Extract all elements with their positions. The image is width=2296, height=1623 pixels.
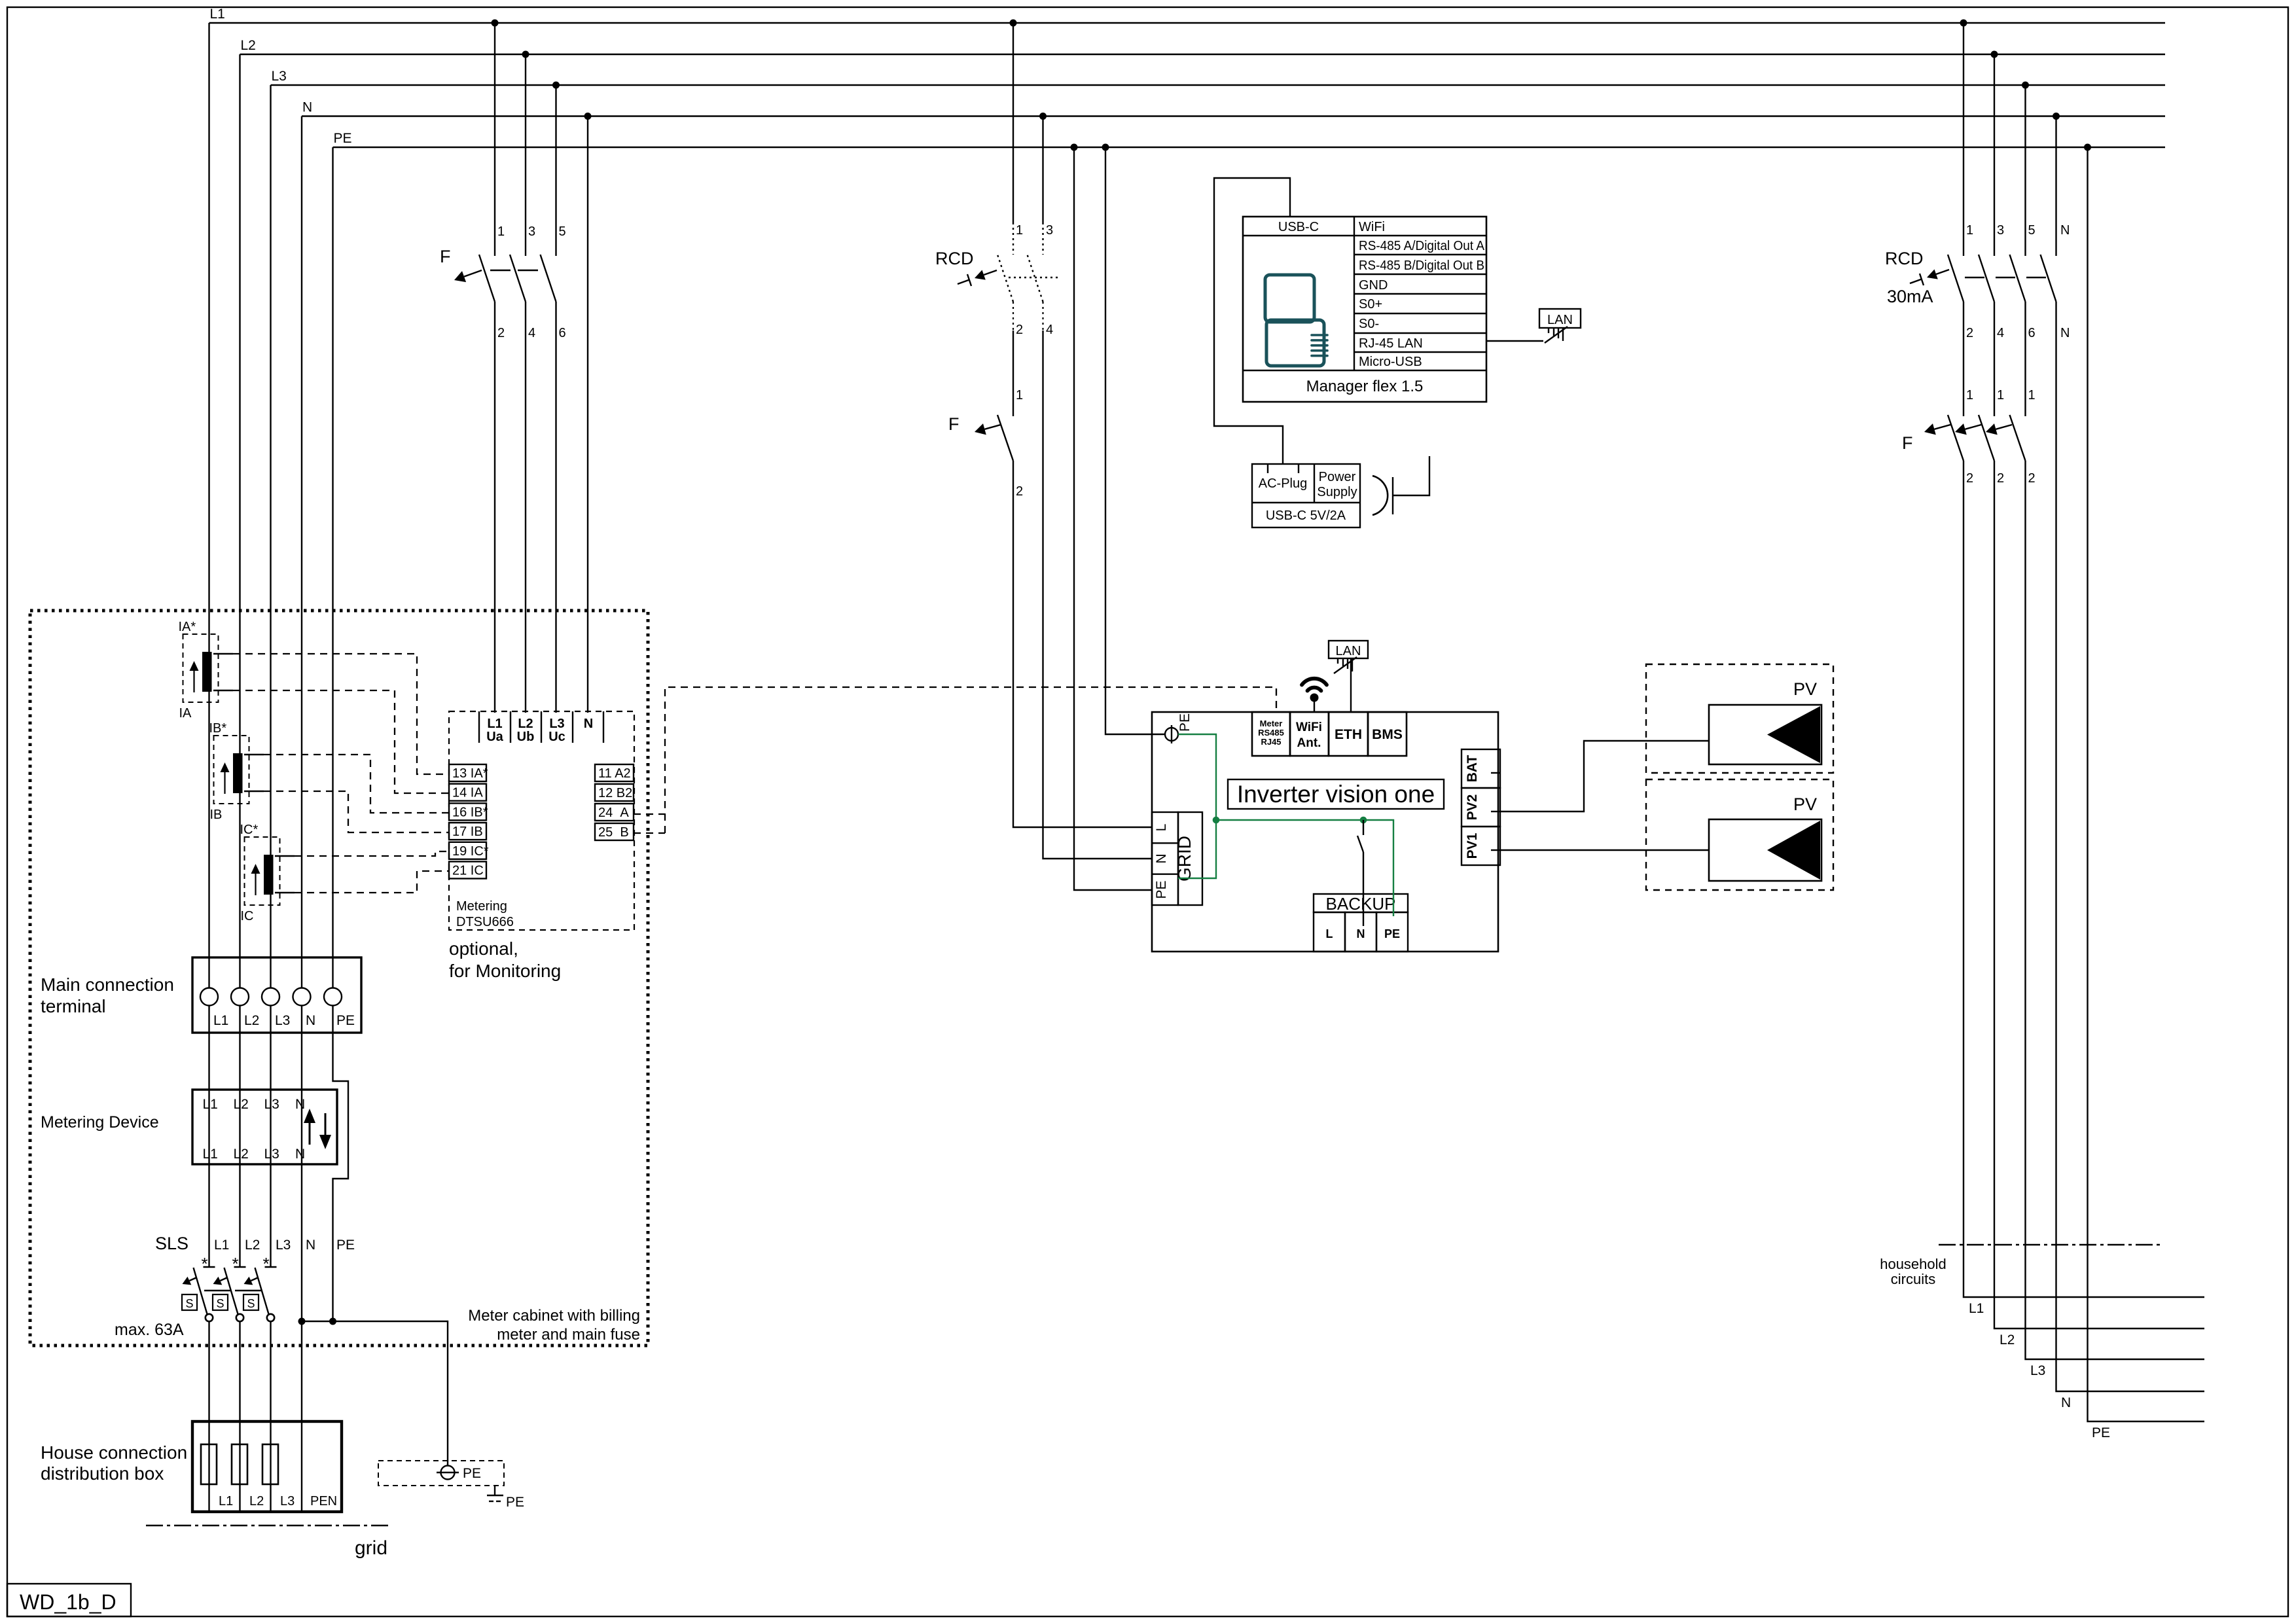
svg-text:L2: L2 xyxy=(234,1147,249,1162)
fuse element L1 in distribution box xyxy=(201,1444,217,1484)
svg-text:19 IC*: 19 IC* xyxy=(452,844,489,859)
fuse F single pole (middle) xyxy=(997,415,1013,461)
bus L3 (horizontal) xyxy=(271,84,2166,86)
svg-text:RS485: RS485 xyxy=(1258,728,1284,738)
svg-text:RJ-45 LAN: RJ-45 LAN xyxy=(1359,336,1423,351)
svg-text:Meter: Meter xyxy=(1260,719,1283,728)
svg-text:L1: L1 xyxy=(487,717,502,731)
SLS breaker pole 2 xyxy=(234,1266,246,1268)
svg-text:N: N xyxy=(295,1147,305,1162)
fuse element L3 in distribution box xyxy=(262,1444,278,1484)
svg-text:21 IC: 21 IC xyxy=(452,864,484,878)
CT IC secondary wire to terminal 19 xyxy=(275,855,295,857)
green junction dot PE net 2 xyxy=(1360,817,1367,824)
title block WD_1b_D xyxy=(7,1584,131,1616)
svg-text:N: N xyxy=(2061,1395,2071,1410)
svg-text:2: 2 xyxy=(1016,484,1023,499)
svg-text:L1: L1 xyxy=(210,7,225,22)
svg-text:Micro-USB: Micro-USB xyxy=(1359,355,1422,369)
svg-text:L3: L3 xyxy=(264,1097,279,1112)
green PE wire from chassis to GRID PE xyxy=(1178,734,1216,878)
wire PV2 to PV array 1 xyxy=(1500,741,1709,811)
svg-text:BACKUP: BACKUP xyxy=(1326,894,1396,914)
wire RJ-45 LAN to network symbol xyxy=(1486,340,1543,342)
wire middle fuse F to inverter GRID L xyxy=(1013,461,1152,827)
wire fuse F pole 5 upper (from L3 bus) xyxy=(555,85,556,256)
svg-text:Ub: Ub xyxy=(517,730,535,744)
svg-text:L1: L1 xyxy=(219,1494,233,1508)
svg-text:L2: L2 xyxy=(245,1238,260,1253)
wifi antenna symbol xyxy=(1314,701,1315,712)
svg-text:grid: grid xyxy=(355,1537,387,1559)
fuse/breaker F 3-pole (left) xyxy=(479,255,495,302)
svg-text:2: 2 xyxy=(1966,471,1973,486)
svg-text:WiFi: WiFi xyxy=(1359,220,1385,234)
svg-text:Power: Power xyxy=(1319,470,1356,484)
svg-text:L3: L3 xyxy=(272,69,287,84)
RS-485 dashed cable from terminals 24/25 to inverter meter port xyxy=(634,813,665,815)
wire middle RCD pole 3 upper xyxy=(1042,116,1043,223)
wire household L1 xyxy=(1964,461,2204,1297)
svg-text:Meter cabinet with billing: Meter cabinet with billing xyxy=(468,1307,640,1325)
svg-text:N: N xyxy=(1357,927,1365,940)
SLS breaker pole 1 xyxy=(204,1266,215,1268)
svg-text:IB*: IB* xyxy=(209,721,227,736)
Manager flex row dividers xyxy=(1354,217,1355,370)
wire ETH to LAN symbol xyxy=(1350,658,1352,712)
svg-text:6: 6 xyxy=(2028,326,2036,340)
svg-text:L3: L3 xyxy=(264,1147,279,1162)
SLS breaker pole 3 xyxy=(265,1266,277,1268)
svg-text:distribution box: distribution box xyxy=(41,1463,164,1484)
inverter BAT PV2 PV1 terminal block xyxy=(1462,749,1500,788)
junction dot N bus to metering N drop xyxy=(584,113,592,120)
main connection terminal screw circles xyxy=(200,988,218,1006)
svg-text:1: 1 xyxy=(1966,223,1973,238)
svg-text:16 IB*: 16 IB* xyxy=(452,805,488,819)
svg-text:RS-485 B/Digital Out B: RS-485 B/Digital Out B xyxy=(1359,259,1484,273)
svg-text:PV2: PV2 xyxy=(1465,794,1480,821)
wire household L3 xyxy=(2026,461,2205,1359)
svg-text:*: * xyxy=(232,1254,238,1274)
svg-text:circuits: circuits xyxy=(1891,1271,1935,1287)
wire fuse F pole 3 upper (from L2 bus) xyxy=(525,54,526,256)
wire L1 left feeder vertical xyxy=(208,23,209,1267)
svg-text:L3: L3 xyxy=(549,717,564,731)
svg-text:L3: L3 xyxy=(275,1013,290,1028)
junction dot N bus to right RCD xyxy=(2053,113,2060,120)
svg-text:Ant.: Ant. xyxy=(1297,736,1321,750)
wire right N down to household xyxy=(2056,302,2205,1391)
DTSU666 current terminal block 13/14/16/17/19/21 xyxy=(449,764,486,781)
current transformer IC direction arrow xyxy=(255,874,256,895)
svg-text:6: 6 xyxy=(559,326,566,340)
inverter GRID terminal block xyxy=(1152,812,1178,905)
svg-text:Ua: Ua xyxy=(486,730,503,744)
svg-text:Supply: Supply xyxy=(1317,485,1357,499)
fuse element L2 in distribution box xyxy=(232,1444,247,1484)
junction dot L2 bus to fuse F xyxy=(522,51,529,58)
svg-text:17 IB: 17 IB xyxy=(452,825,483,839)
grid boundary dash-dot line xyxy=(146,1525,388,1526)
inverter BACKUP terminal block xyxy=(1314,894,1408,912)
metering device box xyxy=(192,1090,337,1164)
svg-text:RJ45: RJ45 xyxy=(1261,737,1281,747)
svg-text:IC: IC xyxy=(241,909,254,923)
svg-text:RCD: RCD xyxy=(1885,249,1924,268)
PV array 1 dashed box xyxy=(1646,664,1833,773)
PV module 2 box with diode triangle xyxy=(1709,819,1821,881)
household boundary dash-dot line xyxy=(1939,1244,2162,1245)
svg-text:F: F xyxy=(948,414,960,434)
svg-text:L1: L1 xyxy=(214,1238,229,1253)
svg-text:BAT: BAT xyxy=(1465,755,1480,783)
LAN network symbol (manager) xyxy=(1539,309,1581,328)
svg-text:L2: L2 xyxy=(249,1494,264,1508)
metering device energy arrows xyxy=(309,1120,311,1145)
svg-text:IC*: IC* xyxy=(240,823,259,837)
PE earth terminal circle xyxy=(441,1466,455,1480)
svg-text:1: 1 xyxy=(1016,223,1023,238)
junction dot L2 bus to right RCD xyxy=(1991,51,1998,58)
svg-text:LAN: LAN xyxy=(1547,313,1573,327)
bus PE (horizontal) xyxy=(333,147,2166,148)
svg-text:3: 3 xyxy=(528,224,535,239)
wire N drop to DTSU666 meter xyxy=(587,116,588,713)
svg-text:PV: PV xyxy=(1793,679,1817,699)
PV1 terminal stub xyxy=(1491,849,1500,851)
DTSU666 RS485 terminal block 11/12/24/25 xyxy=(595,764,634,781)
svg-text:Inverter vision one: Inverter vision one xyxy=(1237,781,1435,808)
svg-text:*: * xyxy=(201,1254,207,1274)
svg-text:S: S xyxy=(185,1297,193,1310)
wire middle RCD pole1 to fuse F xyxy=(1013,330,1014,416)
svg-text:WiFi: WiFi xyxy=(1296,721,1322,734)
wire right RCD pole 3 upper xyxy=(1994,54,1995,256)
CT IB secondary wire to terminal 16 xyxy=(244,754,264,755)
PV2 terminal stub xyxy=(1491,811,1500,812)
metering unit DTSU666 dashed box xyxy=(449,711,634,930)
svg-text:SLS: SLS xyxy=(155,1234,188,1253)
svg-text:L: L xyxy=(1154,824,1169,832)
svg-text:GRID: GRID xyxy=(1174,836,1194,882)
junction dot PE to PEN link xyxy=(329,1318,336,1325)
current transformer IA direction arrow xyxy=(193,671,194,692)
svg-text:2: 2 xyxy=(1997,471,2004,486)
meter cabinet dotted border xyxy=(30,611,648,1346)
svg-text:4: 4 xyxy=(528,326,535,340)
svg-text:PE: PE xyxy=(1177,713,1193,732)
svg-text:5: 5 xyxy=(2028,223,2036,238)
svg-text:RS-485 A/Digital Out A: RS-485 A/Digital Out A xyxy=(1359,239,1485,253)
earth ground symbol xyxy=(494,1486,495,1495)
svg-text:N: N xyxy=(295,1097,305,1112)
junction dot L3 bus to fuse F xyxy=(552,82,560,89)
CT IA secondary wire to terminal 14 xyxy=(213,690,233,691)
label box Inverter vision one xyxy=(1228,779,1444,809)
svg-text:L2: L2 xyxy=(2000,1332,2015,1347)
svg-text:N: N xyxy=(306,1013,315,1028)
wire household PE drop xyxy=(2088,147,2205,1421)
svg-text:PV1: PV1 xyxy=(1465,832,1480,859)
svg-text:4: 4 xyxy=(1046,323,1053,337)
RCD 30mA 4-pole (right) xyxy=(1948,255,1964,302)
wire mains socket xyxy=(1393,456,1429,495)
svg-text:N: N xyxy=(2060,223,2070,238)
svg-text:PEN: PEN xyxy=(310,1494,337,1508)
junction dot PE bus to GRID PE drop xyxy=(1071,144,1078,151)
wire middle RCD pole 1 upper xyxy=(1013,23,1014,223)
svg-text:WD_1b_D: WD_1b_D xyxy=(20,1590,117,1614)
PV array 2 dashed box xyxy=(1646,779,1833,890)
wire L3 left feeder vertical xyxy=(270,85,271,1267)
svg-text:L1: L1 xyxy=(203,1147,218,1162)
main connection terminal box xyxy=(192,957,361,1033)
svg-text:L2: L2 xyxy=(518,717,533,731)
svg-text:Uc: Uc xyxy=(548,730,565,744)
wire fuse F pole 1 upper (from L1 bus) xyxy=(494,23,495,256)
wire USB-C to power supply output xyxy=(1214,178,1290,464)
junction dot L1 bus to right RCD xyxy=(1960,20,1967,27)
svg-text:1: 1 xyxy=(1997,388,2004,402)
bus N (horizontal) xyxy=(302,115,2165,116)
current transformer IA core bar xyxy=(202,652,212,692)
svg-text:F: F xyxy=(1902,433,1913,453)
svg-text:PE: PE xyxy=(506,1495,524,1510)
svg-text:25 B: 25 B xyxy=(598,825,629,840)
svg-text:IA*: IA* xyxy=(179,620,196,634)
RCD middle 2-pole (dotted symbol) xyxy=(997,255,1013,302)
svg-text:LAN: LAN xyxy=(1336,644,1361,658)
svg-text:L2: L2 xyxy=(244,1013,259,1028)
svg-text:PE: PE xyxy=(2092,1425,2110,1440)
svg-text:4: 4 xyxy=(1997,326,2004,340)
svg-text:3: 3 xyxy=(1997,223,2004,238)
svg-text:Manager flex 1.5: Manager flex 1.5 xyxy=(1306,378,1424,395)
wire PE left feeder vertical with jog around metering device xyxy=(333,147,349,1321)
bus L1 (horizontal) xyxy=(209,22,2166,24)
current transformer IA dashed outline xyxy=(183,634,219,702)
svg-text:BMS: BMS xyxy=(1372,727,1403,742)
svg-text:PE: PE xyxy=(334,131,352,146)
green junction dot PE net 1 xyxy=(1213,817,1220,824)
svg-text:GND: GND xyxy=(1359,278,1388,293)
svg-text:Metering Device: Metering Device xyxy=(41,1113,159,1132)
AC-Plug / Power Supply box xyxy=(1252,464,1360,527)
svg-text:AC-Plug: AC-Plug xyxy=(1259,476,1307,491)
svg-text:N: N xyxy=(306,1238,315,1253)
inverter vision one outer box xyxy=(1152,712,1498,952)
DTSU666 voltage input terminal bars xyxy=(478,711,480,743)
inverter top ports Meter/WiFi/ETH/BMS xyxy=(1252,712,1290,756)
Manager flex device icon (teal) xyxy=(1265,275,1314,322)
svg-text:S: S xyxy=(216,1297,224,1310)
LAN network symbol (inverter) xyxy=(1329,641,1368,658)
svg-text:2: 2 xyxy=(1966,326,1973,340)
inverter chassis PE terminal circle xyxy=(1165,728,1178,741)
svg-text:11 A2: 11 A2 xyxy=(598,766,631,781)
PV module 1 box with diode triangle xyxy=(1709,705,1821,764)
svg-text:terminal: terminal xyxy=(41,996,106,1016)
current transformer IB core bar xyxy=(233,753,243,793)
svg-text:F: F xyxy=(440,247,451,266)
wire right RCD pole 5 upper xyxy=(2024,85,2026,256)
svg-text:L3: L3 xyxy=(276,1238,291,1253)
Manager flex 1.5 outer box xyxy=(1243,217,1486,402)
svg-text:30mA: 30mA xyxy=(1887,287,1933,306)
svg-text:DTSU666: DTSU666 xyxy=(456,915,514,929)
svg-text:household: household xyxy=(1880,1256,1946,1272)
SLS mechanical coupling line xyxy=(204,1290,230,1291)
svg-text:S: S xyxy=(247,1297,255,1310)
svg-text:meter and main fuse: meter and main fuse xyxy=(497,1326,640,1344)
svg-text:PE: PE xyxy=(336,1238,355,1253)
svg-text:IB: IB xyxy=(210,808,223,822)
earth electrode dashed box xyxy=(378,1461,504,1486)
BAT terminal stub xyxy=(1491,772,1500,774)
svg-text:2: 2 xyxy=(497,326,505,340)
svg-text:L3: L3 xyxy=(2030,1363,2045,1378)
bus L2 (horizontal) xyxy=(240,54,2166,55)
junction dot N to PEN link xyxy=(298,1318,306,1325)
svg-text:2: 2 xyxy=(1016,323,1023,337)
wire PEN bonding link to earth electrode xyxy=(302,1321,448,1466)
svg-text:optional,: optional, xyxy=(449,938,518,959)
svg-text:13 IA*: 13 IA* xyxy=(452,766,488,781)
junction dot PE bus to inverter chassis PE drop xyxy=(1102,144,1109,151)
svg-text:IA: IA xyxy=(179,706,192,721)
junction dot N bus to middle RCD xyxy=(1039,113,1047,120)
svg-text:RCD: RCD xyxy=(935,249,974,268)
svg-text:N: N xyxy=(1154,853,1169,863)
svg-text:PE: PE xyxy=(1154,880,1169,899)
svg-text:ETH: ETH xyxy=(1335,727,1362,742)
svg-text:L1: L1 xyxy=(213,1013,228,1028)
wire middle N down to inverter GRID N xyxy=(1043,330,1153,859)
wire L2 left feeder vertical xyxy=(239,54,240,1267)
junction dot L3 bus to right RCD xyxy=(2022,82,2029,89)
svg-text:USB-C: USB-C xyxy=(1278,220,1319,234)
svg-text:*: * xyxy=(262,1254,269,1274)
svg-text:1: 1 xyxy=(1016,388,1023,402)
svg-text:L: L xyxy=(1326,927,1333,940)
svg-text:1: 1 xyxy=(1966,388,1973,402)
svg-text:USB-C 5V/2A: USB-C 5V/2A xyxy=(1266,508,1346,523)
wire PE drop to inverter chassis PE terminal xyxy=(1105,147,1165,734)
current transformer IB dashed outline xyxy=(214,736,249,804)
svg-text:24 A: 24 A xyxy=(598,806,629,820)
wires SLS outputs down to distribution box xyxy=(208,1322,209,1512)
green PE wire to BACKUP PE xyxy=(1216,820,1393,916)
svg-text:max. 63A: max. 63A xyxy=(115,1321,184,1339)
junction dot PE bus to household PE xyxy=(2084,144,2091,151)
svg-text:14 IA: 14 IA xyxy=(452,786,483,800)
svg-text:Metering: Metering xyxy=(456,899,507,914)
svg-text:for Monitoring: for Monitoring xyxy=(449,961,561,981)
svg-text:PE: PE xyxy=(463,1466,481,1481)
svg-text:1: 1 xyxy=(497,224,505,239)
svg-text:S0-: S0- xyxy=(1359,317,1379,331)
wire right RCD pole N upper xyxy=(2055,116,2056,257)
fuse F 3-pole (right) xyxy=(1948,415,1964,461)
current transformer IC dashed outline xyxy=(245,837,280,905)
current transformer IC core bar xyxy=(264,855,274,895)
current transformer IB direction arrow xyxy=(224,772,225,794)
junction dot L1 bus to middle RCD xyxy=(1010,20,1017,27)
svg-text:L2: L2 xyxy=(241,38,256,53)
svg-text:N: N xyxy=(584,717,593,731)
svg-text:PV: PV xyxy=(1793,794,1817,814)
svg-text:L2: L2 xyxy=(234,1097,249,1112)
CT IB secondary wire to terminal 17 xyxy=(244,791,264,792)
wire household L2 xyxy=(1994,461,2204,1329)
svg-text:1: 1 xyxy=(2028,388,2036,402)
CT IA secondary wire to terminal 13 xyxy=(213,653,233,654)
svg-text:5: 5 xyxy=(559,224,566,239)
wire PV1 to PV array 2 xyxy=(1500,849,1709,851)
backup N-PE bonding relay switch xyxy=(1363,820,1364,835)
svg-text:3: 3 xyxy=(1046,223,1053,238)
svg-text:PE: PE xyxy=(1384,927,1400,940)
wire PE drop to inverter GRID PE xyxy=(1074,147,1152,890)
svg-text:N: N xyxy=(302,100,312,115)
house connection distribution box xyxy=(192,1421,342,1512)
svg-text:12 B2: 12 B2 xyxy=(598,786,632,800)
svg-text:L1: L1 xyxy=(1969,1301,1984,1316)
wires right RCD to right fuse F xyxy=(1963,302,1964,416)
AC plug pins xyxy=(1267,464,1268,473)
svg-text:PE: PE xyxy=(336,1013,355,1028)
svg-text:2: 2 xyxy=(2028,471,2036,486)
junction dot L1 bus to fuse F xyxy=(492,20,499,27)
wire N left feeder vertical xyxy=(301,116,302,1512)
svg-text:S0+: S0+ xyxy=(1359,297,1382,312)
CT IC secondary wire to terminal 21 xyxy=(275,892,295,893)
svg-text:House connection: House connection xyxy=(41,1442,187,1463)
wire right RCD pole 1 upper xyxy=(1963,23,1964,256)
mains socket symbol xyxy=(1372,476,1388,515)
svg-text:Main connection: Main connection xyxy=(41,974,174,995)
svg-text:L3: L3 xyxy=(280,1494,295,1508)
svg-text:N: N xyxy=(2060,326,2070,340)
svg-text:L1: L1 xyxy=(203,1097,218,1112)
